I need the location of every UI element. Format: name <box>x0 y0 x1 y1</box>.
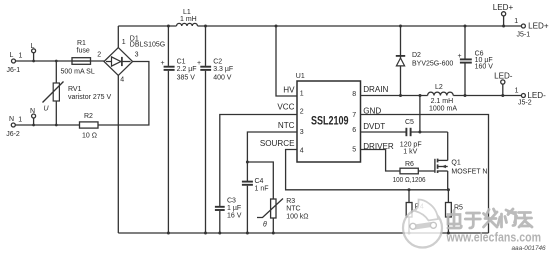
svg-text:MOSFET N: MOSFET N <box>451 169 487 176</box>
svg-text:+: + <box>161 60 165 67</box>
wire bottom rail DC- <box>118 232 488 234</box>
resistor R4 <box>406 190 424 233</box>
svg-text:N: N <box>30 108 35 115</box>
node varistor tap on L <box>55 60 58 63</box>
svg-text:J6-1: J6-1 <box>7 67 21 74</box>
wire VCC branch <box>220 115 297 207</box>
diode D2 <box>396 26 454 96</box>
wire C5 to MOSFET drain <box>447 132 449 160</box>
svg-text:LED+: LED+ <box>493 3 514 12</box>
svg-text:C1: C1 <box>177 59 186 66</box>
svg-text:3: 3 <box>135 52 139 59</box>
node source junctions <box>408 188 450 191</box>
svg-text:2: 2 <box>300 109 304 116</box>
svg-text:J5-2: J5-2 <box>518 100 532 107</box>
svg-text:4: 4 <box>120 77 124 84</box>
svg-text:NTC: NTC <box>278 121 295 130</box>
svg-text:2.1 mH: 2.1 mH <box>431 98 454 105</box>
svg-text:5: 5 <box>352 147 356 154</box>
svg-text:Q1: Q1 <box>451 160 460 167</box>
svg-text:10 Ω: 10 Ω <box>82 133 97 140</box>
node bottom rail junctions <box>167 232 450 235</box>
svg-text:LED-: LED- <box>494 72 513 81</box>
svg-text:100 kΩ: 100 kΩ <box>286 214 308 221</box>
svg-text:100 Ω,1206: 100 Ω,1206 <box>393 177 426 184</box>
svg-text:LED+: LED+ <box>528 22 549 31</box>
inductor L1 <box>177 9 198 26</box>
svg-text:6: 6 <box>352 127 356 134</box>
wire bridge bottom vertical to rail <box>117 75 119 233</box>
capacitor C1 <box>161 26 197 233</box>
svg-text:NTC: NTC <box>286 206 300 213</box>
capacitor C3 <box>215 198 242 234</box>
svg-text:1: 1 <box>18 117 22 124</box>
svg-text:16 V: 16 V <box>227 213 242 220</box>
wire DVDT branch <box>361 131 407 133</box>
svg-text:aaa-001746: aaa-001746 <box>512 245 547 252</box>
node top rail junctions <box>167 25 505 28</box>
pin L <box>31 43 36 62</box>
varistor RV1 <box>43 61 112 125</box>
inductor L2 <box>428 84 458 112</box>
svg-text:160 V: 160 V <box>475 64 494 71</box>
svg-text:1: 1 <box>515 88 519 95</box>
wire top rail DC+ <box>118 25 521 27</box>
wire L input <box>16 60 105 62</box>
svg-text:C5: C5 <box>405 119 414 126</box>
wire DRAIN net <box>361 95 522 97</box>
svg-text:C3: C3 <box>227 198 236 205</box>
svg-text:L: L <box>10 52 14 59</box>
resistor R2 <box>80 113 99 140</box>
svg-text:SOURCE: SOURCE <box>260 139 295 148</box>
capacitor C6 <box>458 26 494 96</box>
svg-text:120 pF: 120 pF <box>400 141 422 148</box>
svg-text:J5-1: J5-1 <box>517 32 531 39</box>
svg-text:1000 mA: 1000 mA <box>429 105 457 112</box>
svg-text:N: N <box>9 116 14 123</box>
svg-text:varistor 275 V: varistor 275 V <box>68 94 112 101</box>
pin LED+ <box>493 3 514 26</box>
svg-text:3.3 µF: 3.3 µF <box>213 66 233 73</box>
svg-text:400 V: 400 V <box>213 75 232 82</box>
wire GND branch <box>361 115 489 234</box>
svg-text:R2: R2 <box>84 113 93 120</box>
svg-text:1: 1 <box>19 53 23 60</box>
wire C5 node up to DRAIN <box>419 96 421 133</box>
svg-text:1: 1 <box>300 91 304 98</box>
terminal J5-2 LED- <box>515 88 547 107</box>
svg-text:DBLS105G: DBLS105G <box>130 42 165 49</box>
thermistor R3 NTC <box>257 198 309 233</box>
svg-text:2.2 µF: 2.2 µF <box>177 66 197 73</box>
pin N <box>30 108 36 126</box>
capacitor C4 <box>242 178 269 233</box>
svg-text:θ: θ <box>263 222 267 229</box>
svg-text:C4: C4 <box>255 178 264 185</box>
svg-text:R6: R6 <box>405 161 414 168</box>
node C5 to drain tap <box>418 131 421 134</box>
svg-text:SSL2109: SSL2109 <box>311 116 349 128</box>
svg-text:1 µF: 1 µF <box>227 205 241 212</box>
svg-text:1 kV: 1 kV <box>403 149 417 156</box>
svg-text:8: 8 <box>352 91 356 98</box>
wire bridge top vertical <box>117 26 119 48</box>
watermark text Chinese <box>448 209 532 228</box>
svg-text:R1: R1 <box>77 40 86 47</box>
svg-text:1 nF: 1 nF <box>255 186 269 193</box>
svg-text:RV1: RV1 <box>68 86 82 93</box>
svg-text:2: 2 <box>97 52 101 59</box>
wire NTC branch <box>247 132 297 181</box>
svg-text:D2: D2 <box>412 52 421 59</box>
svg-text:1: 1 <box>514 18 518 25</box>
node DRAIN junctions <box>399 94 504 97</box>
resistor R6 <box>393 161 435 184</box>
wire NTC to R3 <box>247 162 273 199</box>
node varistor tap on N <box>55 124 58 127</box>
wire SOURCE branch <box>286 150 449 190</box>
wire N to bridge pin3 <box>98 62 149 126</box>
svg-text:L: L <box>31 43 35 50</box>
wire N input <box>15 124 79 126</box>
node NTC junction <box>246 161 249 164</box>
fuse R1 <box>61 40 95 76</box>
svg-text:L2: L2 <box>435 84 443 91</box>
terminal J6-2 N <box>6 116 22 138</box>
svg-text:J6-2: J6-2 <box>6 131 20 138</box>
op-amp U1 SSL2109 <box>260 73 394 162</box>
svg-text:C2: C2 <box>213 59 222 66</box>
terminal J5-1 LED+ <box>514 18 549 39</box>
svg-text:3: 3 <box>300 129 304 136</box>
pin LED- <box>494 72 513 96</box>
svg-text:1: 1 <box>122 39 126 46</box>
watermark logo elecfans <box>403 200 442 248</box>
capacitor C5 <box>400 119 448 156</box>
svg-text:1 mH: 1 mH <box>180 16 197 23</box>
svg-text:385 V: 385 V <box>177 75 196 82</box>
svg-text:www.elecfans.com: www.elecfans.com <box>446 231 541 245</box>
svg-text:+: + <box>458 53 462 60</box>
svg-text:4: 4 <box>300 148 304 155</box>
bridge rectifier D1 <box>97 36 165 84</box>
wire MOSFET source down <box>447 171 449 190</box>
svg-text:HV: HV <box>283 86 295 95</box>
wire HV from top rail <box>276 26 297 96</box>
svg-text:BYV25G-600: BYV25G-600 <box>412 60 453 67</box>
wire DRIVER branch <box>361 150 401 172</box>
svg-text:500 mA SL: 500 mA SL <box>61 69 95 76</box>
capacitor C2 <box>197 26 233 233</box>
svg-text:DRAIN: DRAIN <box>363 85 388 94</box>
svg-text:VCC: VCC <box>277 103 294 112</box>
svg-text:DVDT: DVDT <box>363 122 385 131</box>
svg-text:U1: U1 <box>296 73 305 80</box>
svg-text:R3: R3 <box>286 198 295 205</box>
svg-text:7: 7 <box>352 112 356 119</box>
resistor R5 <box>446 190 464 233</box>
terminal J6-1 L <box>7 52 23 74</box>
svg-text:L1: L1 <box>183 9 191 16</box>
transistor Q1 MOSFET N <box>435 159 488 176</box>
svg-text:fuse: fuse <box>77 48 90 55</box>
svg-text:+: + <box>197 60 201 67</box>
